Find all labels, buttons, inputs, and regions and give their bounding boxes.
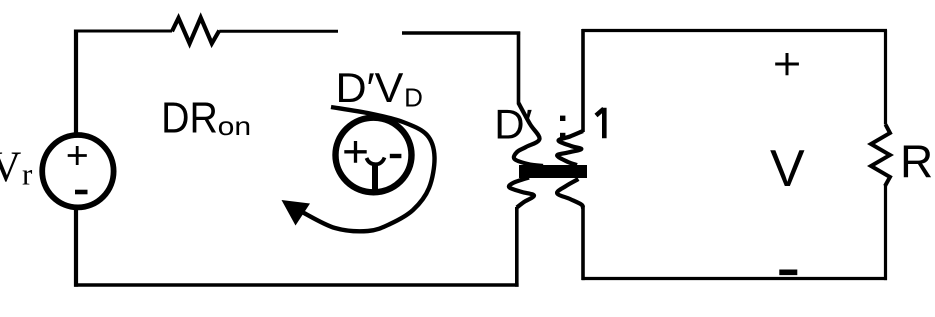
plus in dependent source <box>344 141 366 163</box>
wire right loop right edge lower <box>884 185 887 280</box>
svg-text:r: r <box>22 157 33 192</box>
wire top-left <box>76 30 172 33</box>
wire right loop right edge upper <box>884 30 887 125</box>
svg-text:V: V <box>770 140 805 198</box>
wire top after gap <box>402 31 520 34</box>
transformer secondary winding upper <box>557 131 583 165</box>
wire left vertical lower <box>74 206 78 287</box>
wire left vertical upper <box>74 30 78 137</box>
minus in dependent source <box>390 154 402 158</box>
colon of turns ratio <box>560 116 565 121</box>
wire right loop left edge upper <box>581 29 585 132</box>
T mark in dependent source <box>367 158 385 165</box>
source Vr circle <box>42 135 113 207</box>
svg-text:R: R <box>900 136 933 188</box>
transformer core bar <box>519 165 587 178</box>
swirl arrow <box>303 107 435 231</box>
svg-text:DR: DR <box>161 94 218 143</box>
transformer primary winding upper <box>514 103 543 166</box>
wire bottom of left loop <box>74 283 518 287</box>
minus in Vr <box>75 190 88 195</box>
resistor R zigzag <box>871 125 890 187</box>
dependent source circle <box>336 118 412 193</box>
minus label below V <box>779 269 797 275</box>
resistor DRon zigzag <box>172 18 219 44</box>
wire right vertical of left loop lower <box>515 207 519 287</box>
wire right loop left edge lower <box>581 207 585 280</box>
transformer primary winding lower <box>509 178 534 208</box>
wire right vertical of left loop upper <box>517 32 521 105</box>
svg-text:V: V <box>0 144 21 191</box>
transformer secondary winding lower <box>557 179 583 208</box>
wire right loop top edge <box>582 29 887 32</box>
svg-text:D′: D′ <box>494 100 532 147</box>
numeral 1 of turns ratio <box>596 108 604 139</box>
wire top to gap <box>219 30 338 33</box>
svg-text:D: D <box>404 83 423 113</box>
plus label above V <box>775 53 799 75</box>
svg-text:on: on <box>218 111 252 141</box>
wire right loop bottom edge <box>582 277 887 280</box>
svg-text:D′V: D′V <box>336 64 404 111</box>
arrowhead of swirl <box>282 200 311 226</box>
plus in Vr <box>68 146 87 165</box>
